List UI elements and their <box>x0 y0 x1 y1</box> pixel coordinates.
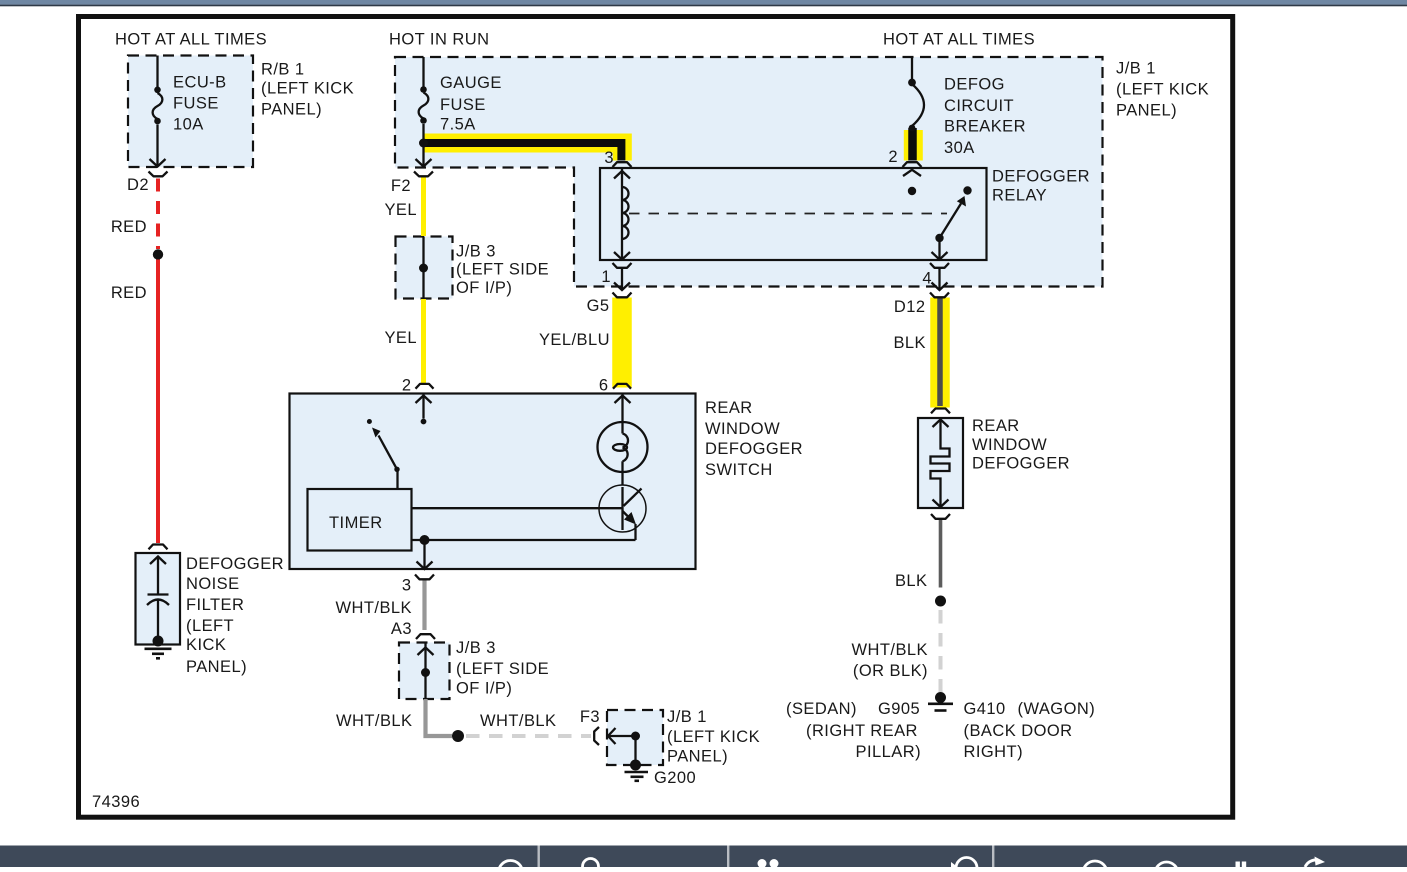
wire: YEL/BLU thick band G5 to switch pin 6 <box>612 298 632 388</box>
rear window defogger element box <box>918 418 963 508</box>
svg-text:REAR: REAR <box>972 417 1020 435</box>
svg-text:SWITCH: SWITCH <box>705 461 773 479</box>
svg-text:(OR BLK): (OR BLK) <box>853 662 928 680</box>
connector A3 cup <box>416 634 435 639</box>
wire: YEL thin J/B 3 to switch pin 2 <box>421 299 426 384</box>
wire: BLK gray below defogger <box>939 520 943 588</box>
relay armature pivot dot <box>935 234 943 242</box>
rear window defogger element symbol <box>931 420 950 508</box>
wire: RED solid to noise filter <box>156 260 160 544</box>
relay contact fixed dot (pin 2) <box>908 187 916 195</box>
svg-text:D12: D12 <box>894 298 926 316</box>
svg-text:WHT/BLK: WHT/BLK <box>852 641 929 659</box>
fuse F1 ECU-B 10A <box>150 56 166 167</box>
svg-text:A3: A3 <box>391 620 412 638</box>
connector D12 cup <box>930 293 949 298</box>
svg-text:WHT/BLK: WHT/BLK <box>480 712 557 730</box>
connector noise filter top cup <box>149 545 168 550</box>
svg-text:(LEFT KICK: (LEFT KICK <box>261 80 354 98</box>
svg-text:3: 3 <box>402 577 412 595</box>
connector F2 <box>414 172 433 177</box>
svg-text:TIMER: TIMER <box>329 514 383 532</box>
svg-text:BLK: BLK <box>895 572 928 590</box>
svg-text:J/B 3: J/B 3 <box>456 243 496 261</box>
toolbar icon rotate <box>956 858 977 868</box>
ground G905 <box>928 692 953 711</box>
svg-text:G410: G410 <box>964 700 1006 718</box>
svg-text:GAUGE: GAUGE <box>440 74 502 92</box>
J/B 3 upper internal lead <box>419 237 428 299</box>
connector switch pin 3 cup <box>415 575 434 580</box>
svg-text:WHT/BLK: WHT/BLK <box>336 599 413 617</box>
svg-text:74396: 74396 <box>92 793 140 811</box>
svg-text:(RIGHT REAR: (RIGHT REAR <box>806 722 918 740</box>
ground at noise filter <box>145 636 172 659</box>
toolbar icon pause bars <box>1236 862 1240 868</box>
svg-text:DEFOG: DEFOG <box>944 76 1005 94</box>
connector F3 cup <box>594 727 599 745</box>
wire: WHT/BLK gray from switch pin 3 to A3 <box>422 580 426 630</box>
switch contact dot <box>367 419 372 424</box>
svg-text:ECU-B: ECU-B <box>173 74 227 92</box>
svg-text:(LEFT SIDE: (LEFT SIDE <box>456 660 549 678</box>
switch box S1 REAR WINDOW DEFOGGER SWITCH <box>290 394 696 570</box>
svg-text:(LEFT KICK: (LEFT KICK <box>1116 81 1209 99</box>
wire: dark core of D12 band <box>937 298 943 407</box>
svg-text:KICK: KICK <box>186 636 226 654</box>
svg-text:PANEL): PANEL) <box>261 101 322 119</box>
wire: black core of breaker leg <box>908 128 917 161</box>
svg-text:BLK: BLK <box>893 334 926 352</box>
ground G200 <box>625 760 649 781</box>
svg-text:2: 2 <box>888 148 898 166</box>
svg-text:F2: F2 <box>391 177 411 195</box>
wire: WHT/BLK dashed to F3 <box>466 734 591 738</box>
fuse block R/B 1 dashed box <box>128 56 253 168</box>
svg-text:10A: 10A <box>173 116 204 134</box>
svg-text:J/B 3: J/B 3 <box>456 639 496 657</box>
wire pin4 to D12 with crossing arrow <box>932 268 948 290</box>
svg-text:RED: RED <box>111 284 147 302</box>
svg-text:CIRCUIT: CIRCUIT <box>944 97 1014 115</box>
svg-text:PANEL): PANEL) <box>1116 102 1177 120</box>
svg-text:HOT AT ALL TIMES: HOT AT ALL TIMES <box>883 31 1035 49</box>
wire: BLK thick band D12 to rear window defogger <box>930 298 950 408</box>
svg-text:(LEFT KICK: (LEFT KICK <box>667 728 760 746</box>
svg-text:HOT AT ALL TIMES: HOT AT ALL TIMES <box>115 31 267 49</box>
junction block J/B 1 dashed box (F3) <box>607 710 663 765</box>
svg-text:RELAY: RELAY <box>992 187 1047 205</box>
svg-text:BREAKER: BREAKER <box>944 118 1026 136</box>
svg-text:J/B 1: J/B 1 <box>667 708 707 726</box>
connector pin 4 cup <box>930 263 949 268</box>
timer block TIMER <box>308 489 412 551</box>
svg-text:DEFOGGER: DEFOGGER <box>186 555 284 573</box>
svg-text:NOISE: NOISE <box>186 575 240 593</box>
svg-text:G905: G905 <box>878 700 920 718</box>
wire pin1 to G5 with crossing arrow <box>614 268 630 290</box>
svg-text:HOT IN RUN: HOT IN RUN <box>389 31 489 49</box>
wire: YEL thin F2 to J/B 3 <box>421 176 426 236</box>
svg-text:YEL/BLU: YEL/BLU <box>539 331 610 349</box>
relay armature arm with arrowhead <box>940 196 967 238</box>
indicator lamp <box>598 422 648 485</box>
wire: black core of feed wire <box>424 143 622 161</box>
switch pin 6 internal lead <box>615 394 631 423</box>
svg-text:7.5A: 7.5A <box>440 116 476 134</box>
switch pin 2 internal lead <box>416 394 432 424</box>
svg-text:YEL: YEL <box>384 329 417 347</box>
svg-text:REAR: REAR <box>705 399 753 417</box>
svg-text:DEFOGGER: DEFOGGER <box>705 440 803 458</box>
relay coil <box>614 168 630 260</box>
svg-text:FUSE: FUSE <box>440 96 486 114</box>
connector pin 3 cup of relay <box>613 162 632 167</box>
splice junction dot WHT/BLK <box>452 730 464 742</box>
svg-text:FUSE: FUSE <box>173 95 219 113</box>
toolbar icon person head <box>583 859 599 872</box>
connector defogger top cup <box>931 409 950 414</box>
connector defogger bottom cup <box>931 514 950 519</box>
connector pin 1 cup <box>613 263 632 268</box>
junction block J/B 3 dashed box (upper) <box>396 237 453 299</box>
svg-text:F3: F3 <box>580 708 600 726</box>
svg-text:WHT/BLK: WHT/BLK <box>336 712 413 730</box>
circuit breaker CB DEFOG 30A <box>908 57 924 131</box>
svg-text:J/B 1: J/B 1 <box>1116 60 1156 78</box>
relay/junction-block J/B 1 dashed region <box>395 57 1103 287</box>
wire: thick yellow-highlighted breaker leg to relay pin 2 <box>904 130 923 161</box>
svg-text:G5: G5 <box>587 297 610 315</box>
connector D2 <box>149 172 168 177</box>
toolbar icon circle 3 <box>1155 862 1178 872</box>
connector switch pin 2 cup <box>416 384 434 389</box>
wire: WHT/BLK gray below J/B 3 with elbow <box>426 699 453 736</box>
toolbar icon dots <box>758 859 767 868</box>
J/B 1 (F3) internal lead to ground G200 <box>608 728 640 765</box>
svg-text:(LEFT SIDE: (LEFT SIDE <box>456 261 549 279</box>
svg-text:(SEDAN): (SEDAN) <box>786 700 857 718</box>
toolbar icon circle 2 <box>1083 861 1107 872</box>
top browser bar <box>0 0 1407 5</box>
wire: WHT/BLK (OR BLK) dashed to ground <box>939 610 943 692</box>
capacitor C1 defogger noise filter <box>147 557 169 638</box>
svg-text:PILLAR): PILLAR) <box>856 743 922 761</box>
relay pin 4 lead <box>932 242 948 260</box>
svg-text:3: 3 <box>604 149 614 167</box>
svg-text:(LEFT: (LEFT <box>186 617 234 635</box>
svg-text:2: 2 <box>402 377 412 395</box>
connector switch pin 6 cup <box>613 384 631 389</box>
splice junction dot on red wire <box>153 249 163 259</box>
relay box U1 DEFOGGER RELAY <box>600 168 987 260</box>
svg-text:(BACK DOOR: (BACK DOOR <box>964 722 1073 740</box>
svg-text:PANEL): PANEL) <box>186 658 247 676</box>
svg-text:1: 1 <box>601 268 611 286</box>
svg-text:WINDOW: WINDOW <box>972 436 1047 454</box>
timer output wire and junction <box>412 535 636 569</box>
svg-text:OF I/P): OF I/P) <box>456 680 512 698</box>
svg-text:YEL: YEL <box>384 201 417 219</box>
svg-text:D2: D2 <box>127 176 149 194</box>
relay contact fixed dot (upper right) <box>963 186 971 194</box>
switch arm with arrowhead <box>372 428 400 490</box>
svg-text:FILTER: FILTER <box>186 596 244 614</box>
svg-text:RIGHT): RIGHT) <box>964 743 1024 761</box>
svg-text:DEFOGGER: DEFOGGER <box>992 168 1090 186</box>
diagram frame <box>79 17 1233 818</box>
toolbar icon circle 1 <box>499 861 523 872</box>
svg-text:R/B 1: R/B 1 <box>261 61 305 79</box>
svg-text:4: 4 <box>922 270 932 288</box>
wire: RED dashed D2 to splice <box>156 179 160 250</box>
svg-text:RED: RED <box>111 218 147 236</box>
J/B 3 lower internal lead <box>418 643 434 700</box>
fuse F2 GAUGE 7.5A <box>416 57 432 167</box>
relay internal dashed link <box>629 213 947 215</box>
svg-text:G200: G200 <box>654 769 696 787</box>
svg-text:6: 6 <box>599 377 609 395</box>
svg-text:30A: 30A <box>944 139 975 157</box>
svg-text:DEFOGGER: DEFOGGER <box>972 455 1070 473</box>
relay pin 2 interior chevron <box>903 170 921 176</box>
bottom toolbar <box>0 846 1407 872</box>
svg-text:OF I/P): OF I/P) <box>456 279 512 297</box>
defogger noise filter box <box>136 553 181 645</box>
connector G5 cup <box>613 293 632 298</box>
toolbar icon forward arrow <box>1305 860 1316 867</box>
transistor Q1 <box>412 485 647 540</box>
splice junction dot BLK <box>935 596 946 607</box>
svg-text:(WAGON): (WAGON) <box>1018 700 1096 718</box>
svg-text:PANEL): PANEL) <box>667 748 728 766</box>
junction block J/B 3 dashed box (lower, A3) <box>399 643 450 700</box>
connector pin 2 cup of relay <box>903 162 922 167</box>
svg-text:WINDOW: WINDOW <box>705 420 780 438</box>
wire: thick yellow-highlighted feed from gauge fuse to relay pin 3 <box>424 143 622 161</box>
